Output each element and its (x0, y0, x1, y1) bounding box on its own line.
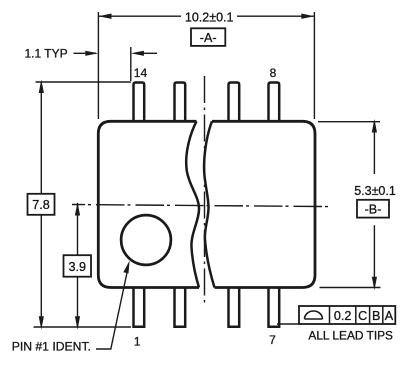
7.8 dim line lower (40, 215, 42, 327)
pin 7 (bottom) (269, 287, 280, 327)
pin 14 (top) (134, 83, 145, 122)
vertical centerline (204, 76, 206, 307)
package body left half (98, 121, 199, 287)
feature control frame box (299, 306, 395, 324)
svg-text:-A-: -A- (200, 31, 217, 45)
pin 9 (top) (229, 83, 240, 122)
extension line bottom of pins (34, 326, 132, 328)
pin 1 (bottom) (134, 287, 145, 327)
profile of a line symbol (305, 311, 323, 319)
extension line top of pins (7.8 ref) (36, 81, 131, 83)
pin #1 ident leader line (96, 267, 128, 350)
fcf leader line (277, 323, 299, 325)
arrow 10.2 right (301, 14, 314, 19)
break line left (186, 121, 199, 287)
fcf separator 1 (329, 306, 331, 324)
extension line body bottom right side (320, 287, 381, 289)
arrow 10.2 left (98, 14, 111, 19)
3.9 dim line upper (77, 203, 79, 255)
svg-text:8: 8 (270, 66, 277, 80)
7.8 arrow up (39, 80, 44, 94)
3.9 arrow up (75, 202, 80, 216)
svg-text:-B-: -B- (365, 203, 382, 217)
svg-text:ALL LEAD TIPS: ALL LEAD TIPS (308, 329, 393, 343)
7.8 arrow down (39, 316, 44, 330)
7.8 dim line upper (40, 82, 42, 194)
pin 8 (top) (269, 83, 280, 122)
svg-text:5.3±0.1: 5.3±0.1 (354, 184, 396, 198)
pin 2 (bottom) (175, 287, 186, 327)
horizontal centerline (72, 205, 333, 207)
fcf separator 2 (355, 306, 357, 324)
fcf separator 4 (382, 306, 384, 324)
fcf separator 3 (369, 306, 371, 324)
svg-text:7: 7 (269, 333, 276, 347)
pin 13 (top) (175, 83, 186, 122)
pin #1 ident circle (121, 215, 171, 265)
1.1 TYP arrow left (131, 51, 144, 56)
svg-text:10.2±0.1: 10.2±0.1 (185, 11, 234, 25)
5.3 arrow up (372, 119, 377, 133)
1.1 TYP arrow right (85, 51, 98, 56)
svg-text:1: 1 (134, 334, 141, 348)
svg-text:3.9: 3.9 (69, 260, 87, 274)
break line right (204, 121, 214, 287)
1.1 TYP leader line (74, 52, 97, 54)
svg-text:14: 14 (134, 66, 148, 80)
package body right half (212, 121, 315, 287)
5.3 dim line lower (373, 225, 375, 287)
3.9 arrow down (75, 316, 80, 330)
5.3 dim line upper (373, 122, 375, 174)
3.9 box (64, 255, 92, 277)
pin 6 (bottom) (229, 287, 240, 327)
svg-text:PIN #1 IDENT.: PIN #1 IDENT. (12, 340, 91, 354)
-B- datum box (357, 200, 389, 218)
extension line body left top (97, 12, 99, 119)
svg-text:B: B (372, 309, 380, 323)
dim line 10.2 right part (237, 15, 314, 17)
pin14 extension line (130, 47, 132, 81)
extension line body right top (313, 12, 315, 119)
svg-text:0.2: 0.2 (334, 309, 352, 323)
-A- datum box (191, 28, 225, 46)
pin #1 ident arrow (123, 261, 129, 274)
dim line 10.2 left part (98, 15, 181, 17)
7.8 box (28, 194, 55, 215)
svg-text:C: C (358, 309, 367, 323)
5.3 arrow down (372, 277, 377, 291)
extension line body top right side (318, 121, 380, 123)
svg-text:1.1 TYP: 1.1 TYP (25, 47, 68, 61)
svg-text:A: A (385, 309, 394, 323)
1.1 TYP arrow tail (142, 52, 157, 54)
3.9 dim line lower (77, 277, 79, 327)
svg-text:7.8: 7.8 (32, 198, 50, 212)
